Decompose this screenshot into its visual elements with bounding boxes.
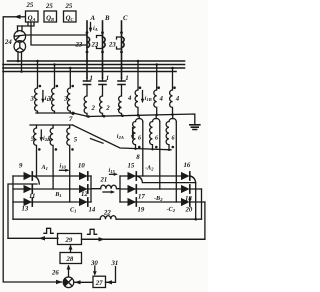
bus line 2 [3,64,185,66]
wire arc: diode 15 cathode to tie line [137,176,196,183]
input 30 label and arrow [90,260,98,276]
wire: CT C secondary stubs [117,37,122,49]
svg-text:21: 21 [100,177,108,184]
left bridge left rail V1 [12,176,14,219]
svg-text:6: 6 [172,135,175,141]
svg-text:3: 3 [30,96,35,103]
svg-text:4: 4 [175,96,180,103]
pulse symbol (left of 29) [44,228,53,233]
current arrow iA [89,23,98,33]
svg-text:2: 2 [105,105,110,112]
svg-text:4: 4 [127,95,132,102]
capacitor 1 with coil 2 (phase C branch) [118,78,125,116]
svg-text:2: 2 [116,105,121,112]
svg-text:10: 10 [78,163,85,170]
reactor coil 3 (phase C) [67,68,74,113]
capacitor 1 with coil 2 (phase A branch) [84,78,91,117]
svg-text:16: 16 [184,162,191,169]
bias coil 6 (first) with lead to second bridge [133,115,143,176]
svg-text:22: 22 [103,210,111,217]
diode 18 [181,185,190,193]
diode 17 [128,185,137,193]
diode 11 [24,185,33,193]
wire arc: diode 16 cathode down to right rail [190,176,195,219]
svg-text:9: 9 [19,163,23,170]
measuring unit QC (25) [64,11,77,22]
compensating coil 4 (third) [170,68,176,115]
svg-text:C: C [123,15,128,22]
pins under QA [18,22,35,26]
svg-text:13: 13 [22,206,29,213]
svg-text:25: 25 [26,2,34,9]
wire: slant from node 7 to rail R2 [73,113,88,117]
svg-text:17: 17 [138,194,145,201]
svg-text:A: A [90,15,96,22]
svg-text:25: 25 [65,3,73,10]
measuring unit QA (25) [26,11,39,22]
capacitor 1 with coil 2 (phase B branch) [99,78,106,116]
rail of working coils 5 [30,124,73,126]
svg-text:29: 29 [65,237,73,244]
diode 19 [128,198,137,206]
svg-text:25: 25 [45,3,53,10]
svg-text:6: 6 [138,135,141,141]
diode 9 [24,172,33,180]
svg-text:23: 23 [108,42,116,49]
svg-text:3: 3 [47,96,52,103]
right bridge row 3 wire [120,201,205,203]
svg-text:4: 4 [159,96,164,103]
phase line B [101,21,104,78]
diode 15 [128,172,137,180]
working coil 5 (phase A) with lead to diode bridge [34,125,41,176]
svg-text:1: 1 [125,75,128,82]
pulse symbol (right of 29) [88,229,97,234]
svg-text:23: 23 [91,42,99,49]
compensating coil 4 (second) [154,65,160,115]
driver box 28 [60,253,82,264]
svg-text:1: 1 [106,75,109,82]
diode 16 [181,172,190,180]
svg-text:27: 27 [95,280,103,287]
svg-text:8: 8 [136,154,140,161]
phase line C [120,21,123,78]
wire: 28 to 29 with arrow [69,245,73,253]
working coil 5 (phase C) with lead to diode bridge [67,125,74,202]
svg-text:6: 6 [155,135,158,141]
bus line 1 [8,60,185,62]
svg-text:5: 5 [74,137,78,144]
svg-text:B: B [104,15,110,22]
svg-text:14: 14 [89,207,96,214]
left bridge row 3 wire [13,201,91,203]
right bridge left rail [119,176,121,202]
CT 23 on phase C [122,37,125,47]
reactor coil 3 (phase A) [35,61,42,113]
current label i2A (right, at coils 6) [117,128,135,141]
wire: box 29 right output with arrow [82,237,205,241]
diode 20 [181,198,190,206]
svg-text:1: 1 [90,75,93,82]
bus line 3 [3,67,185,69]
wire: box 27 to mixer with arrow [74,280,93,284]
current arrow i2A (left) [40,130,51,142]
right bridge row 2 wire [120,188,202,190]
svg-text:3: 3 [63,96,68,103]
svg-text:12: 12 [81,191,88,198]
node 7 [69,112,75,123]
svg-text:26: 26 [51,270,59,277]
transformer 24 (two-winding) [14,26,26,72]
measuring unit QB (25) [44,11,57,22]
svg-text:24: 24 [4,39,12,46]
smoothing coil 21 [101,185,120,189]
wire arc: diode 9 cathode to output wire [34,176,40,184]
svg-text:5: 5 [31,136,35,143]
wire: outer feedback loop (left edge, from QA arrow down to summing unit 26) [3,15,62,285]
input 31 label and wire [106,260,119,285]
phase line A [86,21,89,78]
diode 13 [24,198,33,206]
left bridge row 2 wire [13,188,91,190]
wire: diode 18 output down to bottom rail [201,189,203,219]
wire: box 29 left output with arrow [8,236,58,240]
svg-text:15: 15 [128,163,135,170]
wire: CT B secondary stubs [97,36,103,49]
current label i10 with arrow [60,163,70,172]
current arrow under coil 21 [103,190,115,193]
svg-text:20: 20 [185,207,193,214]
wire: CT A secondary bottom lead to instruments [31,26,87,45]
svg-text:2: 2 [91,105,96,112]
svg-text:19: 19 [138,207,145,214]
junction dots on buses [17,60,174,73]
current arrow i1B [141,91,152,104]
working coil 5 (phase B) with lead to diode bridge [50,125,57,189]
wire: QA left lead [18,16,26,18]
current arrow i1A [41,91,52,104]
diode 14 [79,198,88,206]
summing element 26 [63,277,74,288]
crossing mark on diagonal [91,139,104,144]
bias coil 6 (third) with lead to second bridge [166,114,176,202]
CT 23 on phase B [103,37,106,47]
bus line 4 [3,71,176,73]
pulse generator box 29 [58,234,82,245]
svg-text:5: 5 [47,136,51,143]
reactor coil 3 (phase B) [52,65,59,114]
svg-text:23: 23 [75,42,83,49]
svg-text:31: 31 [111,260,119,267]
bottom DC rail with junction [13,218,202,221]
smoothing coil 22 [100,216,116,220]
ground [190,125,200,130]
wire: mixer 26 to 28 with arrow [67,265,71,277]
wire: diode 20 output down and left to pulse unit 29 [84,202,205,239]
diode 10 [79,172,88,180]
rail R2 (coil 2 bottoms, coil 6 tops) [87,114,195,125]
bias coil 6 (second) with lead to second bridge [150,115,160,189]
diode 12 [79,185,88,193]
left bridge row 1 wire [13,175,91,177]
wire: CT A secondary top lead to instruments [25,34,87,36]
right bridge row 1 wire [120,175,181,177]
wire: crossover diagonal from coil 5 rail to node 8 rail [73,125,172,150]
CT 23 on phase A [87,37,90,47]
svg-text:7: 7 [69,116,73,123]
left bridge output wire to V2 [8,184,37,238]
left bridge right-side junction wire [91,176,101,202]
neutral rail R1 (to ground) [36,113,174,117]
svg-text:28: 28 [66,256,74,263]
compensating coil 4 (first) [135,61,141,115]
current label i15 with arrow [109,167,119,176]
control box 27 [93,276,106,287]
